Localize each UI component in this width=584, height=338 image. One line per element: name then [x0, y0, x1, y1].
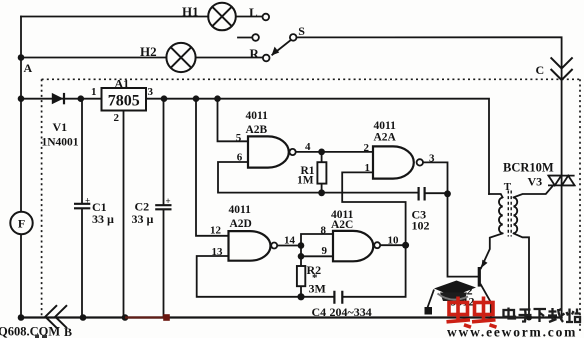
svg-text:33 µ: 33 µ: [132, 212, 154, 226]
svg-text:C4: C4: [312, 305, 327, 319]
svg-text:+: +: [166, 196, 171, 206]
svg-text:B: B: [64, 325, 72, 338]
svg-text:C: C: [536, 63, 545, 77]
svg-text:A2A: A2A: [374, 132, 397, 144]
svg-text:5: 5: [236, 132, 242, 144]
svg-text:www.eeworm.com: www.eeworm.com: [447, 325, 577, 338]
svg-text:8: 8: [321, 225, 327, 237]
svg-text:33 µ: 33 µ: [92, 212, 114, 226]
svg-text:3: 3: [148, 86, 154, 98]
svg-text:4011: 4011: [374, 120, 397, 132]
svg-text:R: R: [250, 46, 260, 61]
svg-text:T: T: [504, 181, 512, 193]
svg-text:2: 2: [364, 142, 370, 154]
svg-text:13: 13: [212, 246, 224, 258]
svg-text:7805: 7805: [108, 93, 140, 110]
svg-text:1M: 1M: [297, 175, 314, 187]
svg-text:H1: H1: [182, 4, 199, 19]
svg-text:10: 10: [388, 235, 400, 247]
svg-text:9: 9: [322, 245, 328, 257]
svg-text:204~334: 204~334: [330, 305, 372, 319]
svg-text:1: 1: [91, 86, 97, 98]
svg-text:A1: A1: [115, 77, 130, 91]
svg-text:V3: V3: [528, 175, 543, 189]
svg-text:3: 3: [429, 153, 435, 165]
svg-text:S: S: [298, 24, 305, 38]
svg-text:12: 12: [210, 225, 222, 237]
svg-text:A: A: [24, 61, 33, 75]
svg-text:4011: 4011: [229, 204, 252, 216]
svg-text:102: 102: [412, 219, 430, 233]
svg-text:4011: 4011: [246, 110, 269, 122]
svg-text:A2D: A2D: [230, 218, 252, 230]
svg-text:F: F: [18, 217, 25, 231]
svg-text:H2: H2: [140, 44, 157, 59]
svg-text:1: 1: [365, 162, 371, 174]
svg-text:3M: 3M: [309, 282, 326, 296]
svg-text:6: 6: [237, 152, 243, 164]
svg-text:A2C: A2C: [331, 219, 353, 231]
svg-text:Q608.COM: Q608.COM: [0, 325, 60, 338]
svg-text:4: 4: [305, 141, 311, 153]
svg-text:BCR10M: BCR10M: [503, 161, 554, 175]
svg-text:A2B: A2B: [246, 124, 268, 136]
svg-text:14: 14: [284, 235, 296, 247]
svg-text:+: +: [85, 195, 90, 205]
svg-text:1N4001: 1N4001: [42, 137, 79, 149]
svg-text:2: 2: [114, 112, 120, 124]
svg-text:V1: V1: [53, 120, 68, 134]
svg-text:L: L: [249, 5, 258, 20]
